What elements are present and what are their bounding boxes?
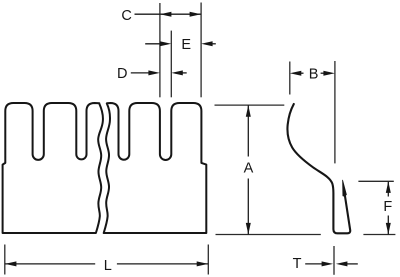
- T extension tick: [333, 246, 335, 275]
- L left arrowhead: [5, 261, 17, 266]
- T right arrowhead (points left): [336, 261, 348, 266]
- F up arrowhead: [386, 181, 391, 193]
- comb right section outline: [104, 103, 207, 233]
- svg-text:B: B: [309, 67, 319, 83]
- bottom extension line right segment: [363, 234, 395, 236]
- A up arrowhead: [246, 105, 251, 117]
- svg-text:F: F: [383, 199, 392, 215]
- extension line slot left (C/D ref): [159, 3, 161, 97]
- svg-text:C: C: [121, 8, 131, 24]
- foot return lip wedge: [343, 180, 347, 196]
- C dimension shaft: [160, 13, 201, 15]
- C leader line: [135, 13, 160, 15]
- L right extension tick: [207, 245, 209, 275]
- L dimension shaft right: [117, 263, 208, 265]
- F top extension line: [358, 180, 393, 182]
- D leader/shaft left: [131, 72, 155, 74]
- T leader shaft left: [305, 263, 324, 265]
- svg-text:T: T: [293, 256, 302, 272]
- F down arrowhead: [386, 223, 391, 235]
- B left arrow shaft: [293, 72, 304, 74]
- L dimension shaft left: [5, 263, 95, 265]
- C right arrowhead: [190, 12, 202, 17]
- D right arrow shaft: [175, 72, 187, 74]
- B right extension line: [334, 61, 336, 163]
- L left extension tick: [4, 245, 6, 275]
- svg-text:A: A: [244, 161, 254, 177]
- svg-text:E: E: [181, 37, 191, 53]
- B right arrow shaft: [321, 72, 331, 74]
- D right arrowhead: [171, 70, 183, 75]
- comb left section outline: [3, 103, 103, 233]
- E left arrowhead: [160, 41, 172, 46]
- A dimension shaft upper: [247, 105, 249, 156]
- svg-text:D: D: [117, 66, 127, 82]
- A top extension line: [215, 104, 285, 106]
- extension line slot right (D/E ref): [170, 31, 172, 98]
- L right arrowhead: [197, 261, 209, 266]
- D left arrowhead: [148, 70, 160, 75]
- C left arrowhead: [160, 12, 172, 17]
- T right arrow shaft: [345, 263, 358, 265]
- B right arrowhead: [323, 71, 335, 76]
- bottom extension line left segment: [216, 234, 321, 236]
- A dimension shaft lower: [247, 179, 249, 235]
- B left extension line: [289, 62, 291, 95]
- E left arrow shaft: [145, 43, 167, 45]
- F dimension shaft upper: [387, 181, 389, 196]
- E right arrowhead: [201, 41, 213, 46]
- E right arrow shaft: [205, 43, 216, 45]
- svg-text:L: L: [104, 258, 112, 274]
- B left arrowhead: [290, 71, 302, 76]
- T left arrowhead (points right): [322, 261, 334, 266]
- extension line finger right (C/E ref): [200, 3, 202, 98]
- F dimension shaft lower: [387, 216, 389, 235]
- A down arrowhead: [246, 223, 251, 235]
- side profile S-curve and foot: [287, 104, 350, 233]
